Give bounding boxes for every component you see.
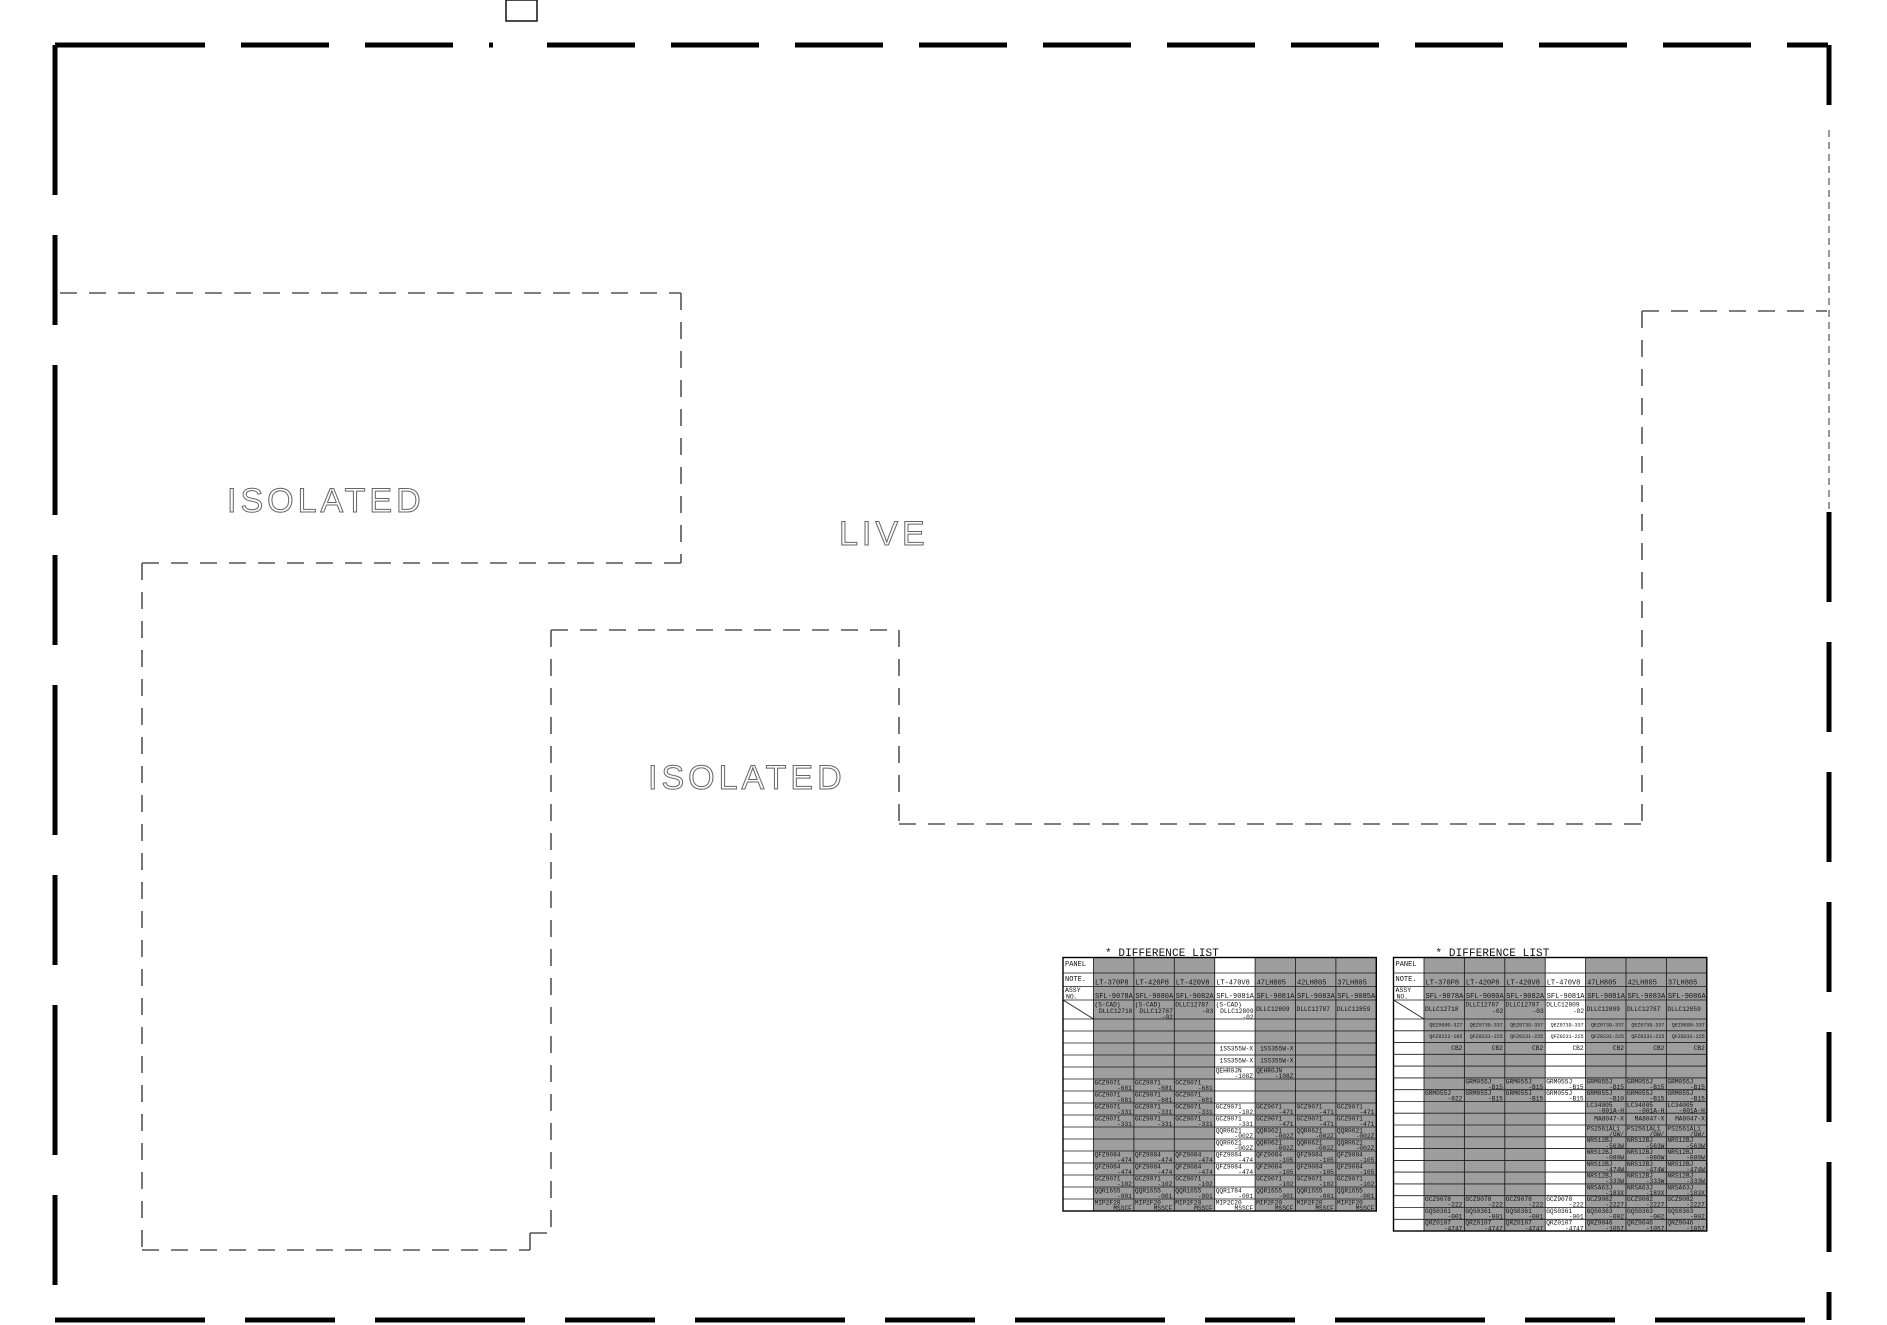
svg-text:QEZ0739-337: QEZ0739-337 [1470, 1022, 1503, 1028]
svg-text:-1057: -1057 [1686, 1225, 1705, 1232]
svg-text:LT-370P8: LT-370P8 [1426, 980, 1460, 988]
svg-text:MSSCF: MSSCF [1275, 1205, 1294, 1212]
svg-text:ISOLATED: ISOLATED [227, 482, 425, 520]
svg-text:SFL-9082A: SFL-9082A [1176, 993, 1215, 1001]
svg-text:NOTE.: NOTE. [1065, 976, 1086, 984]
svg-text:SFL-9081A: SFL-9081A [1257, 993, 1296, 1001]
svg-text:-331: -331 [1117, 1121, 1132, 1128]
svg-text:-02: -02 [1162, 1014, 1173, 1021]
svg-text:QFZ0222-105: QFZ0222-105 [1429, 1034, 1462, 1040]
svg-text:SFL-9080A: SFL-9080A [1135, 993, 1174, 1001]
svg-text:QEZ0739-337: QEZ0739-337 [1510, 1022, 1543, 1028]
bottom border [55, 1318, 1828, 1323]
svg-text:SFL-9081A: SFL-9081A [1547, 993, 1586, 1001]
svg-text:-02: -02 [1492, 1008, 1503, 1015]
svg-text:MA8047-X: MA8047-X [1675, 1116, 1705, 1123]
right border thin dashed pass-through [1828, 130, 1830, 512]
svg-text:-4747: -4747 [1565, 1225, 1584, 1232]
svg-text:-02: -02 [1573, 1008, 1584, 1015]
svg-text:DLLC12718: DLLC12718 [1425, 1006, 1459, 1013]
svg-text:-108Z: -108Z [1235, 1073, 1254, 1080]
svg-text:SFL-9080A: SFL-9080A [1466, 993, 1505, 1001]
svg-text:-331: -331 [1157, 1121, 1172, 1128]
svg-text:47LH805: 47LH805 [1587, 980, 1616, 988]
svg-text:-1057: -1057 [1646, 1225, 1665, 1232]
svg-text:47LH805: 47LH805 [1257, 980, 1286, 988]
svg-text:-B15: -B15 [1488, 1096, 1503, 1103]
svg-text:QEZ0690-327: QEZ0690-327 [1429, 1022, 1462, 1028]
svg-text:MSSCF: MSSCF [1356, 1205, 1375, 1212]
svg-text:QFZ0231-225: QFZ0231-225 [1470, 1034, 1503, 1040]
svg-text:DLLC12859: DLLC12859 [1337, 1006, 1371, 1013]
svg-text:QEZ0739-337: QEZ0739-337 [1631, 1022, 1664, 1028]
svg-text:-108Z: -108Z [1275, 1073, 1294, 1080]
svg-text:MA8047-X: MA8047-X [1594, 1116, 1624, 1123]
svg-text:QFZ0231-225: QFZ0231-225 [1551, 1034, 1584, 1040]
svg-text:QFZ0231-225: QFZ0231-225 [1510, 1034, 1543, 1040]
svg-text:QFZ0231-225: QFZ0231-225 [1672, 1034, 1705, 1040]
svg-text:SFL-9082A: SFL-9082A [1506, 993, 1545, 1001]
svg-text:-B15: -B15 [1528, 1096, 1543, 1103]
svg-text:PANEL: PANEL [1065, 961, 1086, 969]
svg-text:1SS355W-X: 1SS355W-X [1220, 1057, 1254, 1064]
svg-text:1SS355W-X: 1SS355W-X [1260, 1057, 1294, 1064]
svg-text:CB2: CB2 [1451, 1045, 1462, 1052]
svg-text:PANEL: PANEL [1396, 961, 1417, 969]
svg-text:SFL-9078A: SFL-9078A [1095, 993, 1134, 1001]
svg-text:-474: -474 [1238, 1169, 1253, 1176]
svg-text:DLLC12787: DLLC12787 [1297, 1006, 1331, 1013]
svg-text:37LH805: 37LH805 [1668, 980, 1697, 988]
top gap box [506, 0, 537, 21]
svg-text:SFL-9083A: SFL-9083A [1297, 993, 1336, 1001]
svg-text:MSSCF: MSSCF [1315, 1205, 1334, 1212]
svg-text:MSSCF: MSSCF [1113, 1205, 1132, 1212]
svg-text:-001A-H: -001A-H [1679, 1108, 1705, 1115]
svg-text:1SS355W-X: 1SS355W-X [1260, 1045, 1294, 1052]
svg-text:CB2: CB2 [1694, 1045, 1705, 1052]
svg-text:DLLC12718: DLLC12718 [1099, 1008, 1133, 1015]
svg-text:1SS355W-X: 1SS355W-X [1220, 1045, 1254, 1052]
svg-text:37LH805: 37LH805 [1337, 980, 1366, 988]
svg-text:-4747: -4747 [1525, 1225, 1544, 1232]
svg-text:LT-420V8: LT-420V8 [1506, 980, 1540, 988]
svg-text:MA8047-X: MA8047-X [1635, 1116, 1665, 1123]
svg-text:MSSCF: MSSCF [1194, 1205, 1213, 1212]
svg-text:LT-420P8: LT-420P8 [1135, 980, 1169, 988]
svg-text:42LH805: 42LH805 [1628, 980, 1657, 988]
svg-text:MSSCF: MSSCF [1235, 1205, 1254, 1212]
svg-text:SFL-9081A: SFL-9081A [1216, 993, 1255, 1001]
svg-text:-001A-H: -001A-H [1638, 1108, 1664, 1115]
svg-text:NOTE.: NOTE. [1396, 976, 1417, 984]
svg-text:QFZ0231-225: QFZ0231-225 [1591, 1034, 1624, 1040]
svg-text:-331: -331 [1198, 1121, 1213, 1128]
right border heavy parts [1827, 45, 1832, 130]
svg-text:-001A-H: -001A-H [1598, 1108, 1624, 1115]
svg-text:QFZ0231-225: QFZ0231-225 [1631, 1034, 1664, 1040]
svg-text:QEZ0739-337: QEZ0739-337 [1591, 1022, 1624, 1028]
svg-text:LIVE: LIVE [839, 515, 929, 553]
svg-text:DLLC12787: DLLC12787 [1627, 1006, 1661, 1013]
svg-text:-822: -822 [1448, 1096, 1463, 1103]
svg-text:CB2: CB2 [1532, 1045, 1543, 1052]
svg-text:LT-470V8: LT-470V8 [1547, 980, 1581, 988]
svg-text:LT-470V8: LT-470V8 [1216, 980, 1250, 988]
svg-text:SFL-9081A: SFL-9081A [1587, 993, 1626, 1001]
left border [53, 45, 58, 1320]
svg-text:-4747: -4747 [1484, 1225, 1503, 1232]
svg-text:CB2: CB2 [1492, 1045, 1503, 1052]
svg-text:-4747: -4747 [1444, 1225, 1463, 1232]
svg-text:NO.: NO. [1066, 994, 1078, 1001]
svg-text:SFL-9083A: SFL-9083A [1628, 993, 1667, 1001]
svg-text:-03: -03 [1202, 1008, 1213, 1015]
svg-text:CB2: CB2 [1572, 1045, 1583, 1052]
svg-text:NO.: NO. [1397, 994, 1409, 1001]
svg-text:-1057: -1057 [1605, 1225, 1624, 1232]
svg-text:SFL-9078A: SFL-9078A [1426, 993, 1465, 1001]
svg-text:DLLC12809: DLLC12809 [1256, 1006, 1290, 1013]
svg-text:LT-420P8: LT-420P8 [1466, 980, 1500, 988]
svg-text:SFL-9085A: SFL-9085A [1337, 993, 1376, 1001]
svg-text:DLLC12809: DLLC12809 [1587, 1006, 1621, 1013]
svg-text:-B15: -B15 [1569, 1096, 1584, 1103]
svg-text:CB2: CB2 [1613, 1045, 1624, 1052]
svg-text:CB2: CB2 [1653, 1045, 1664, 1052]
svg-text:QEZ0739-337: QEZ0739-337 [1551, 1022, 1584, 1028]
svg-text:DLLC12859: DLLC12859 [1667, 1006, 1701, 1013]
svg-text:-02: -02 [1242, 1014, 1253, 1021]
svg-text:QEZ0690-337: QEZ0690-337 [1672, 1022, 1705, 1028]
svg-text:SFL-9086A: SFL-9086A [1668, 993, 1707, 1001]
cap row boundary [60, 292, 681, 294]
svg-text:ISOLATED: ISOLATED [648, 759, 846, 797]
svg-text:42LH805: 42LH805 [1297, 980, 1326, 988]
svg-text:LT-420V8: LT-420V8 [1176, 980, 1210, 988]
svg-text:MSSCF: MSSCF [1154, 1205, 1173, 1212]
svg-text:LT-370P8: LT-370P8 [1095, 980, 1129, 988]
svg-text:-03: -03 [1533, 1008, 1544, 1015]
